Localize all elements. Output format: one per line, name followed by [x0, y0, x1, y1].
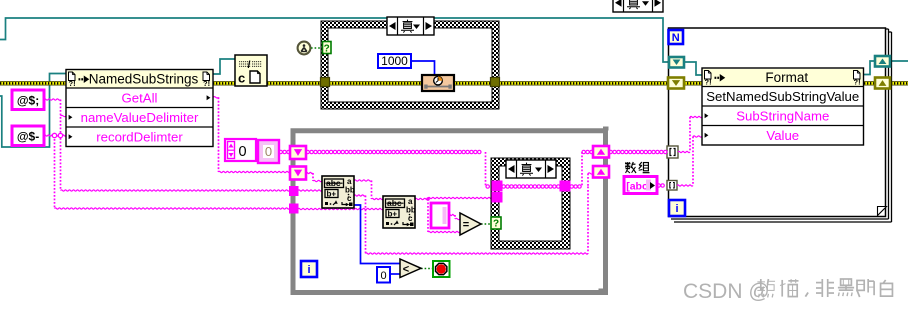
svg-text:SetNamedSubStringValue: SetNamedSubStringValue [706, 89, 859, 104]
svg-text:?!: ?! [69, 79, 76, 88]
svg-text:nameValueDelimiter: nameValueDelimiter [81, 110, 199, 125]
svg-text:@$;: @$; [17, 94, 39, 108]
svg-text:?: ? [324, 44, 330, 55]
svg-text:Value: Value [766, 128, 799, 143]
svg-text:?!: ?! [705, 78, 712, 87]
svg-text:0: 0 [238, 144, 246, 160]
svg-text:Format: Format [765, 70, 808, 85]
svg-text:?: ? [493, 219, 499, 230]
svg-text:recordDelimter: recordDelimter [96, 129, 183, 144]
svg-text:i: i [675, 203, 678, 215]
svg-text:@$-: @$- [17, 130, 39, 144]
svg-text:c: c [408, 214, 413, 223]
svg-text:1000: 1000 [381, 54, 408, 68]
svg-text:=: = [463, 219, 469, 231]
svg-text:CSDN @: CSDN @ [683, 280, 770, 303]
svg-text:N: N [672, 32, 680, 44]
svg-text:c: c [347, 194, 352, 203]
svg-text:NamedSubStrings: NamedSubStrings [89, 71, 199, 86]
svg-text:0: 0 [380, 270, 386, 282]
svg-text:?!: ?! [854, 78, 861, 87]
svg-text:i: i [307, 264, 310, 276]
svg-text:b+: b+ [388, 209, 398, 218]
svg-text:b+: b+ [327, 189, 337, 198]
svg-text:0: 0 [265, 144, 272, 159]
svg-text:GetAll: GetAll [122, 90, 158, 105]
svg-text:[abc: [abc [626, 181, 648, 193]
svg-text:<: < [403, 264, 409, 276]
svg-text:c: c [238, 71, 245, 86]
svg-text:?!: ?! [203, 79, 210, 88]
svg-text:SubStringName: SubStringName [736, 108, 829, 123]
svg-text:/: / [248, 60, 251, 71]
